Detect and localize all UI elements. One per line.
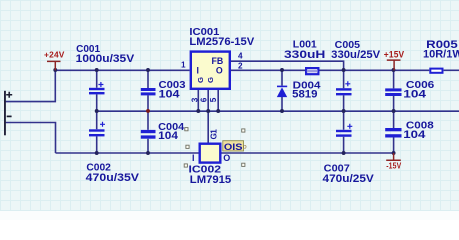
diode D004 [277,86,287,97]
capacitor C006 [385,88,401,96]
svg-text:+24V: +24V [44,50,65,60]
svg-text:o: o [243,144,247,151]
svg-text:LM7915: LM7915 [190,174,231,186]
wire output rail segment 2 [320,69,430,71]
junction D004 ground [280,109,284,113]
svg-text:FB: FB [212,56,224,66]
node marker square 5 [242,163,245,166]
junction C001 top [95,68,99,72]
junction C003/C004 ground [146,109,150,113]
junction D004 top [280,68,284,72]
svg-text:O: O [216,66,223,76]
svg-text:104: 104 [403,88,427,100]
junction C001/C002 ground [95,109,99,113]
svg-text:470u/25V: 470u/25V [323,173,375,185]
wire C008 column [393,111,395,153]
wire +24V input vertical [5,70,56,101]
label C003 [159,80,186,100]
node marker square 1 [185,128,188,131]
wire C002 column [96,111,98,153]
junction IC001 pin6 ground [206,109,210,113]
label L001 [284,40,325,62]
capacitor C007 [336,124,352,137]
resistor R005 [430,69,442,73]
wire D004 column [281,70,283,111]
svg-text:-15V: -15V [386,160,401,170]
label C007 [323,163,375,185]
inductor L001 [306,68,318,74]
junction C003 top [146,68,150,72]
label C008 [403,121,434,141]
svg-text:5: 5 [209,97,218,102]
svg-text:104: 104 [159,88,181,100]
wire C005 column [343,70,345,111]
junction C007 bottom [342,151,346,155]
wire IC001 pin5 [217,90,219,111]
wire -24V input [5,123,56,154]
svg-text:10R/1W: 10R/1W [423,48,459,60]
svg-text:330uH: 330uH [284,49,325,61]
svg-text:I: I [192,153,195,163]
capacitor C001 [89,82,105,94]
svg-text:3: 3 [191,97,200,102]
junction C004 bottom [146,151,150,155]
junction C008/-15V node [392,151,396,155]
svg-text:470u/35V: 470u/35V [86,172,140,184]
wire C003 column [147,70,149,111]
power port +24V [44,50,65,71]
svg-text:G: G [206,77,215,83]
svg-text:1: 1 [181,60,186,69]
label IC002 [189,165,232,186]
label C001 [76,44,135,65]
svg-text:+15V: +15V [384,49,405,59]
junction +24V rail at input [53,68,57,72]
wire IC001 pin3 [197,90,199,111]
terminal - input [7,115,12,117]
node marker square 2 [186,145,189,148]
junction C006/C008 ground [392,109,396,113]
label R005 [423,39,459,61]
svg-text:4: 4 [238,51,243,60]
svg-text:330u/25V: 330u/25V [331,49,381,61]
svg-text:G: G [196,77,205,83]
wire output rail segment 3 [444,69,459,71]
wire C006 column [393,70,395,111]
capacitor C002 [89,122,105,137]
terminal + input [4,91,12,136]
junction C005/C007 ground [342,109,346,113]
wire C004 column [147,111,149,153]
wire FB feedback [231,61,344,70]
capacitor C005 [336,81,352,95]
wire -15V rail [222,152,394,154]
svg-text:O: O [223,153,230,163]
wire IC001 pin6 to IC002 pin [207,90,209,143]
junction IC001 pin5 ground [216,109,220,113]
capacitor C008 [385,128,401,138]
svg-text:I: I [197,66,199,76]
svg-text:104: 104 [403,129,426,141]
label C006 [403,80,434,100]
label C005 [331,40,381,61]
power port -15V [386,153,401,170]
wire ground rail [97,110,459,112]
wire C001 column [96,70,98,111]
node marker square 4 [242,129,245,132]
label D004 [292,81,321,101]
junction C005/FB node [342,68,346,72]
IC IC001 LM2576 regulator [191,52,230,89]
node marker square 3 [184,164,187,167]
svg-text:5819: 5819 [292,88,317,100]
svg-text:1: 1 [210,129,219,134]
net label OIS [223,141,247,153]
capacitor C003 [141,88,156,95]
svg-text:6: 6 [199,97,208,102]
junction IC001 pin3 ground [196,109,200,113]
label IC001 [189,27,255,48]
wire output rail segment 1 [231,69,305,71]
wire top rail +24V [55,69,189,71]
capacitor C004 [141,130,156,139]
svg-text:104: 104 [158,130,179,142]
label C002 [86,162,140,184]
IC IC002 LM7915 regulator [200,144,221,163]
svg-text:1000u/35V: 1000u/35V [76,53,135,65]
junction C002 bottom [95,151,99,155]
wire C007 column [343,111,345,153]
wire bottom-left rail [56,152,199,154]
power port +15V [384,49,405,70]
junction +15V node [392,68,396,72]
svg-text:LM2576-15V: LM2576-15V [189,36,255,48]
svg-text:2: 2 [238,61,243,70]
label C004 [158,122,184,142]
svg-text:OIS: OIS [224,142,243,153]
